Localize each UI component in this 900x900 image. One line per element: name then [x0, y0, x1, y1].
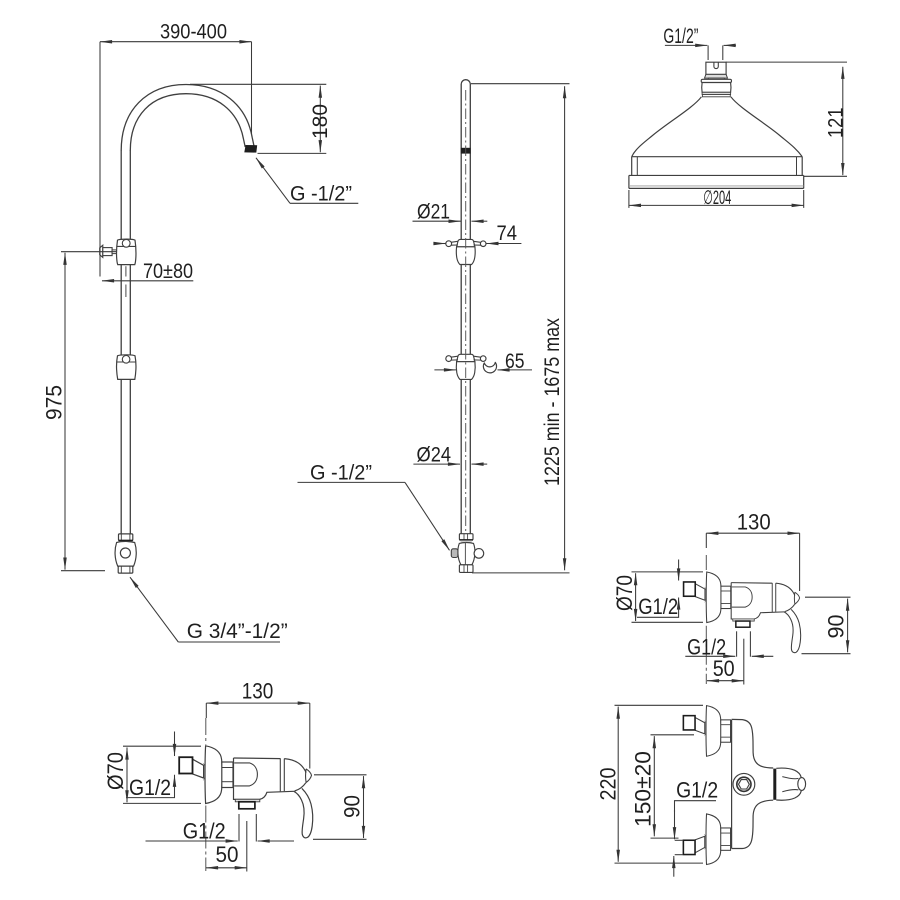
bottom connector barrel: [115, 541, 136, 566]
svg-text:G -1/2”: G -1/2”: [290, 183, 352, 206]
handset hook: [483, 362, 496, 372]
dimension G1/2": [665, 44, 707, 46]
bell body: [632, 97, 803, 157]
rail tube: [461, 80, 470, 534]
leader G -1/2" to rail bottom connector: [405, 482, 450, 550]
union centre line: [205, 718, 207, 871]
hook glider body: [446, 354, 486, 379]
outlet circle: [733, 773, 755, 795]
svg-text:G1/2”: G1/2”: [663, 25, 698, 48]
dimension 130: [206, 702, 309, 704]
pipe joiner barrel: [117, 355, 136, 380]
rail hose-connection band: [461, 148, 471, 154]
wire inner arc of curved arm: [130, 94, 245, 151]
svg-text:130: 130: [242, 678, 274, 703]
bell rim: [632, 156, 803, 158]
stem flare: [705, 74, 728, 78]
svg-text:Ø70: Ø70: [612, 575, 637, 611]
upper wall union: [683, 706, 730, 757]
svg-text:G1/2: G1/2: [129, 775, 171, 800]
svg-text:390-400: 390-400: [160, 21, 227, 44]
head collar: [701, 79, 731, 82]
lower wall union (mirrored): [683, 814, 730, 865]
svg-text:74: 74: [497, 222, 518, 245]
svg-text:∅204: ∅204: [703, 187, 731, 209]
dimension G1/2 outlet: [238, 814, 240, 842]
union centre line: [705, 555, 707, 684]
svg-text:70±80: 70±80: [143, 260, 193, 283]
dimension 121: [842, 67, 844, 175]
bottom connector collar: [119, 534, 133, 541]
connector centre line: [464, 543, 466, 571]
dimension G1/2 outlet: [736, 631, 738, 656]
dimension 130: [706, 532, 799, 534]
rail centre line: [465, 90, 467, 532]
lever cap: [776, 768, 801, 800]
dimension 50: [206, 867, 247, 869]
head stem nipple: [706, 62, 726, 74]
rail bottom connector barrel: [458, 543, 475, 565]
wire pipe lower segment: [120, 379, 122, 534]
dimension 975: [64, 253, 66, 570]
dimension 90: [363, 776, 365, 838]
svg-text:121: 121: [825, 108, 848, 139]
dimension 70±80: [102, 280, 193, 282]
wall union fitting flange: [100, 245, 103, 257]
dimension 180: [319, 86, 321, 153]
rim flange: [629, 174, 804, 176]
outlet hex socket: [739, 780, 750, 789]
dimension 65: [434, 369, 456, 371]
dimension 390-400: [100, 41, 252, 43]
wall union body barrel: [117, 239, 136, 264]
svg-text:65: 65: [505, 350, 525, 373]
dimension G1/2 inlet: [174, 732, 176, 757]
dimension G1/2 inlet: [678, 560, 680, 581]
mixer body front outline: [731, 720, 733, 849]
dimension 50: [707, 680, 744, 682]
dimension Ø21: [413, 220, 461, 222]
lever joint collar: [773, 769, 776, 800]
svg-text:G1/2: G1/2: [183, 819, 226, 844]
mixer wall union: [684, 572, 731, 623]
leader G -1/2" to arm tip: [256, 158, 290, 204]
svg-text:G 3/4”-1/2”: G 3/4”-1/2”: [187, 620, 288, 643]
svg-text:Ø21: Ø21: [417, 201, 450, 224]
svg-text:Ø24: Ø24: [417, 443, 452, 466]
svg-text:90: 90: [824, 615, 849, 639]
wire pipe upper segment: [120, 150, 122, 239]
svg-text:150±20: 150±20: [631, 751, 656, 827]
svg-text:975: 975: [42, 385, 67, 420]
svg-text:50: 50: [713, 656, 735, 681]
dimension 1225 min - 1675 max: [564, 86, 566, 570]
connector side knob: [474, 549, 484, 559]
connector tip band (hand shower connection): [244, 145, 257, 153]
svg-text:G -1/2”: G -1/2”: [310, 462, 372, 485]
svg-text:G1/2: G1/2: [676, 777, 718, 802]
dimension 220: [617, 707, 619, 862]
dimension 150±20: [653, 736, 655, 836]
dimension Ø70: [126, 748, 128, 803]
dimension Ø24: [413, 463, 460, 465]
slider glider body: [446, 239, 486, 264]
mixer body with lever: [234, 758, 313, 838]
dimension Ø204: [629, 204, 804, 206]
connector left stud: [451, 549, 458, 558]
rail bottom connector collar: [459, 534, 473, 540]
svg-text:90: 90: [340, 795, 365, 818]
dimension Ø70: [635, 573, 637, 621]
svg-text:1225 min - 1675 max: 1225 min - 1675 max: [541, 318, 564, 486]
mixer wall union: [179, 746, 233, 804]
wire outer arc of curved arm: [121, 85, 254, 151]
svg-text:50: 50: [216, 842, 239, 867]
svg-text:130: 130: [737, 509, 771, 534]
svg-text:Ø70: Ø70: [103, 752, 128, 790]
bottom connector lower collar: [118, 566, 133, 573]
pipe centre line below union: [125, 266, 127, 297]
dimension 90: [847, 599, 849, 653]
leader G 3/4"-1/2" to bottom connector: [130, 577, 178, 642]
dimension G1/2 (inlet thread): [675, 801, 717, 812]
rail bottom collar: [459, 565, 473, 573]
svg-text:G1/2: G1/2: [638, 594, 678, 619]
wire pipe middle segment: [120, 265, 122, 355]
svg-text:180: 180: [309, 104, 332, 139]
svg-text:220: 220: [596, 768, 621, 801]
dimension 74: [434, 243, 446, 245]
mixer body with lever: [731, 583, 800, 653]
